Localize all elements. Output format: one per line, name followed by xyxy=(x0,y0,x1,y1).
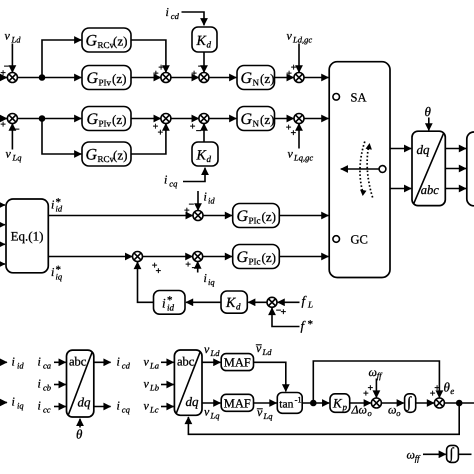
svg-text:ω: ω xyxy=(369,365,377,379)
wire branch up to G_RCv row1 xyxy=(42,40,81,78)
block abc/dq current transform xyxy=(67,350,94,417)
wire MAF1 down into tan-1 xyxy=(254,362,286,391)
svg-text:i: i xyxy=(117,355,120,369)
wire G_PIc row1 into SA/GC block xyxy=(279,215,328,217)
wire vLq,gc up into T4 xyxy=(298,124,300,149)
wire dq/abc to converter block row b xyxy=(445,168,466,170)
svg-text:i: i xyxy=(12,395,15,409)
wire i_id down into C1 xyxy=(197,191,199,210)
svg-text:K: K xyxy=(196,34,207,49)
summer S9 xyxy=(434,398,444,408)
pin circle SA xyxy=(333,94,340,101)
summer S7 xyxy=(267,297,277,307)
wire G_PIc row2 into SA/GC block xyxy=(279,256,328,258)
svg-text:Ld,gc: Ld,gc xyxy=(292,35,312,45)
label f* xyxy=(301,318,314,333)
block integrator 1 xyxy=(405,394,416,413)
label i*_iq (Eq bottom output) xyxy=(51,264,63,282)
svg-text:(z): (z) xyxy=(262,209,276,224)
svg-text:+: + xyxy=(434,383,440,394)
summer T4 row2 xyxy=(294,114,304,124)
wire Eq to summer S5 xyxy=(48,256,132,258)
label vbar_Ld xyxy=(256,341,272,357)
block tan-1 xyxy=(277,393,302,414)
block G_N(z) row2 xyxy=(237,107,275,131)
label v_La xyxy=(144,355,159,371)
svg-text:e: e xyxy=(450,386,454,396)
svg-text:PIv: PIv xyxy=(99,78,112,88)
svg-text:i: i xyxy=(38,399,41,413)
svg-text:−: − xyxy=(192,263,198,274)
svg-text:GC: GC xyxy=(351,233,368,247)
summer T1 row2 xyxy=(7,114,17,124)
svg-text:*: * xyxy=(308,319,314,331)
svg-text:o: o xyxy=(368,408,372,418)
svg-text:v: v xyxy=(144,399,150,413)
svg-text:f: f xyxy=(302,293,308,308)
wire G_N row1 to summer S4 xyxy=(275,77,294,79)
switch wiper line xyxy=(341,168,379,170)
wire Eq input 1 xyxy=(0,204,5,206)
label theta_e xyxy=(444,380,455,397)
summer S4 row1 xyxy=(294,73,304,83)
block abc/dq voltage transform xyxy=(174,350,202,415)
svg-text:Lb: Lb xyxy=(149,383,159,393)
wire K_d row2 up into T3 xyxy=(203,124,205,142)
wire S4 into SA/GC block xyxy=(304,77,329,79)
svg-text:iq: iq xyxy=(208,277,215,287)
svg-text:G: G xyxy=(86,33,98,50)
wire v_Lq into MAF2 xyxy=(202,402,220,404)
wire i*_id block up into S5 xyxy=(138,262,154,302)
block G_PIv(z) row1 xyxy=(82,66,131,90)
svg-text:i: i xyxy=(38,355,41,369)
svg-text:d: d xyxy=(207,40,212,50)
wire G_RCv row2 up into summer T2 xyxy=(131,124,166,154)
svg-text:abc: abc xyxy=(177,355,195,369)
label i_id xyxy=(204,189,216,205)
svg-text:o: o xyxy=(396,408,400,418)
svg-text:ω: ω xyxy=(407,448,415,462)
summer T2 row2 xyxy=(161,114,171,124)
svg-text:−: − xyxy=(198,62,204,73)
svg-text:Ld: Ld xyxy=(262,347,273,357)
wire G_RCv row1 down into summer S2 xyxy=(131,40,166,72)
svg-text:+: + xyxy=(291,63,297,74)
label vLd xyxy=(5,29,22,45)
block G_RCv(z) row2 xyxy=(82,142,131,166)
wire i_cq output xyxy=(94,406,111,408)
svg-text:i: i xyxy=(162,296,166,311)
svg-text:θ: θ xyxy=(76,427,83,442)
wire C1 to G_PIc row1 xyxy=(203,215,232,217)
svg-text:PIc: PIc xyxy=(249,257,261,267)
wire T2 to T3 xyxy=(171,118,199,120)
svg-text:i: i xyxy=(51,265,54,279)
wire summer S7 to K_d xyxy=(248,301,267,303)
svg-text:cd: cd xyxy=(122,361,131,371)
svg-text:v: v xyxy=(256,341,262,355)
summer S8 xyxy=(371,398,381,408)
label v_Lb xyxy=(144,377,159,393)
wire dq/abc to converter block row c xyxy=(445,188,466,190)
svg-text:G: G xyxy=(241,70,253,87)
label f_L xyxy=(302,293,314,310)
wire G_N row2 to summer T4 xyxy=(275,118,294,120)
junction dot row2 xyxy=(40,116,45,121)
svg-text:v: v xyxy=(5,29,11,43)
svg-text:+: + xyxy=(281,307,287,318)
svg-text:tan: tan xyxy=(279,399,293,411)
block K_p xyxy=(330,394,350,413)
wire i_cc into abc/dq current block xyxy=(54,406,66,408)
svg-text:v: v xyxy=(6,147,12,161)
block Eq.(1) xyxy=(6,199,48,273)
node i_id measured input xyxy=(0,361,7,363)
svg-text:θ: θ xyxy=(425,104,432,119)
svg-text:id: id xyxy=(167,303,175,313)
block K_d PLL damping xyxy=(221,291,247,313)
svg-text:G: G xyxy=(237,249,249,266)
svg-text:SA: SA xyxy=(351,90,367,104)
wire Eq input 2 xyxy=(0,224,5,226)
summer S1 xyxy=(7,73,17,83)
svg-text:abc: abc xyxy=(421,183,440,197)
block i*_id feedforward xyxy=(154,291,186,315)
svg-text:Lq: Lq xyxy=(263,411,274,421)
wire dq/abc to converter block row a xyxy=(445,148,466,150)
wire i_cd output xyxy=(94,361,111,363)
wire SA/GC block to dq/abc top output xyxy=(390,148,411,150)
wire K_p to S8 xyxy=(350,402,371,404)
svg-text:+: + xyxy=(156,266,162,277)
block integrator 2 xyxy=(447,445,459,462)
wire S9 to right edge theta_e output xyxy=(444,402,474,404)
label omega_o xyxy=(388,403,401,419)
node i_iq measured input xyxy=(0,402,7,404)
svg-text:cc: cc xyxy=(43,405,51,415)
wire S8 to integrator xyxy=(381,402,404,404)
label omega_ff 2 xyxy=(407,448,422,464)
wire integrator 2 output xyxy=(458,453,471,455)
wire f_L into S7 xyxy=(278,301,300,303)
svg-text:f: f xyxy=(301,318,307,333)
dotted arc left (arrow down) xyxy=(360,142,365,194)
svg-text:p: p xyxy=(342,402,348,412)
wire f* up into S7 xyxy=(272,308,300,327)
block G_PIc(z) row2 xyxy=(233,245,280,269)
svg-text:MAF: MAF xyxy=(224,356,251,370)
block G_N(z) row1 xyxy=(237,66,275,90)
switch pivot circle xyxy=(379,166,386,173)
wire G_PIv row1 to summer S2 xyxy=(131,77,161,79)
wire theta feedback up and over into S9 xyxy=(313,361,439,403)
label vLq,gc xyxy=(288,147,314,163)
svg-text:ω: ω xyxy=(388,403,396,417)
svg-text:RCv: RCv xyxy=(98,154,115,164)
block SA/GC selector xyxy=(329,62,390,278)
svg-text:PIc: PIc xyxy=(249,216,261,226)
label v_Ld xyxy=(204,342,220,358)
wire vLd down into S1 xyxy=(11,44,13,73)
svg-text:N: N xyxy=(253,119,260,129)
label i_cb xyxy=(38,377,52,393)
svg-text:(z): (z) xyxy=(262,250,276,265)
svg-text:iq: iq xyxy=(56,272,63,282)
wire v_La into abc/dq voltage block xyxy=(161,361,174,363)
svg-text:ff: ff xyxy=(415,453,421,463)
svg-text:dq: dq xyxy=(186,394,200,409)
junction dot theta_e xyxy=(457,401,462,406)
label vLq xyxy=(6,147,23,163)
svg-text:Eq.(1): Eq.(1) xyxy=(11,229,44,244)
label delta omega_o xyxy=(351,403,372,419)
svg-text:v: v xyxy=(204,405,210,419)
svg-text:Lc: Lc xyxy=(149,405,159,415)
svg-text:+: + xyxy=(185,260,191,271)
svg-text:i: i xyxy=(166,5,169,19)
wire T4 into SA/GC block xyxy=(304,118,329,120)
block G_PIc(z) row1 xyxy=(233,204,280,228)
svg-text:ca: ca xyxy=(43,361,51,371)
svg-text:N: N xyxy=(253,78,260,88)
svg-text:K: K xyxy=(332,396,343,411)
svg-text:RCv: RCv xyxy=(98,40,115,50)
wire v_Ld into MAF1 xyxy=(202,361,220,363)
svg-text:d: d xyxy=(236,301,241,311)
junction dot row1 xyxy=(40,75,45,80)
block K_d row2 xyxy=(192,142,218,166)
label i_cq output xyxy=(117,399,131,415)
wire theta_e feedback to voltage transform xyxy=(188,403,459,434)
svg-text:+: + xyxy=(153,69,159,80)
junction dot after tan-1 xyxy=(311,401,316,406)
svg-text:−: − xyxy=(196,126,202,137)
svg-text:i: i xyxy=(164,173,167,187)
wire theta into dq/abc xyxy=(428,118,430,131)
wire branch down to G_RCv row2 xyxy=(42,119,81,155)
node vLd* input arrow row1 xyxy=(0,77,7,79)
wire v_Lc into abc/dq voltage block xyxy=(161,406,174,408)
wire i_cq up into K_d row2 xyxy=(183,168,205,182)
wire i_cd to K_d row1 xyxy=(182,12,205,25)
svg-text:K: K xyxy=(225,296,236,311)
svg-text:abc: abc xyxy=(69,355,87,369)
summer C1 xyxy=(193,211,203,221)
wire integrator to S9 xyxy=(416,402,434,404)
label i_cc xyxy=(38,399,51,415)
svg-text:i: i xyxy=(117,399,120,413)
svg-text:dq: dq xyxy=(417,142,431,157)
svg-text:L: L xyxy=(307,300,313,310)
svg-text:G: G xyxy=(86,147,98,164)
wire vLq up into T1 xyxy=(11,124,13,150)
dotted arc right (arrow up) xyxy=(367,146,372,198)
label i_cq xyxy=(164,173,178,189)
wire G_PIv row2 to summer T2 xyxy=(131,118,161,120)
wire S6 to G_PIc row2 xyxy=(202,256,232,258)
svg-text:Lq: Lq xyxy=(12,153,23,163)
wire SA/GC block to dq/abc bottom output xyxy=(390,188,411,190)
svg-text:Ld: Ld xyxy=(11,35,22,45)
svg-text:(z): (z) xyxy=(260,71,274,86)
svg-text:(z): (z) xyxy=(112,112,126,127)
node vLq* input arrow row2 xyxy=(0,118,7,120)
wire i_ca into abc/dq current block xyxy=(54,361,66,363)
svg-text:-1: -1 xyxy=(295,395,302,405)
svg-text:−: − xyxy=(4,62,10,73)
label vLd,gc xyxy=(287,29,313,45)
svg-text:(z): (z) xyxy=(112,71,126,86)
label i_ca xyxy=(38,355,52,371)
svg-text:cd: cd xyxy=(171,11,180,21)
block converter (clipped at right edge) xyxy=(467,132,474,206)
svg-text:i: i xyxy=(12,355,15,369)
svg-text:id: id xyxy=(17,361,24,371)
wire S3 to G_N row1 xyxy=(209,77,237,79)
svg-text:id: id xyxy=(208,195,215,205)
wire Eq input 3 xyxy=(0,243,5,245)
svg-text:cb: cb xyxy=(43,383,51,393)
label vbar_Lq xyxy=(257,405,273,421)
wire i_iq up into S6 xyxy=(197,262,199,273)
wire i_cb into abc/dq current block xyxy=(54,384,66,386)
block G_PIv(z) row2 xyxy=(82,107,131,131)
pin circle GC xyxy=(333,236,340,243)
svg-text:d: d xyxy=(207,154,212,164)
label i*_id (Eq top output) xyxy=(51,197,63,214)
svg-text:i: i xyxy=(204,189,207,203)
summer S2 row1 xyxy=(161,73,171,83)
svg-text:v: v xyxy=(288,147,294,161)
wire K_d row1 down into S3 xyxy=(203,52,205,72)
svg-text:i: i xyxy=(38,377,41,391)
svg-text:K: K xyxy=(196,149,207,164)
svg-text:cq: cq xyxy=(122,405,131,415)
svg-text:+: + xyxy=(184,206,190,217)
label i_cd output xyxy=(117,355,131,371)
svg-text:(z): (z) xyxy=(260,112,274,127)
svg-text:+: + xyxy=(0,120,6,131)
svg-text:i: i xyxy=(51,198,54,212)
svg-text:+: + xyxy=(158,63,164,74)
svg-text:ff: ff xyxy=(377,371,383,381)
svg-text:La: La xyxy=(149,361,159,371)
svg-text:PIv: PIv xyxy=(99,119,112,129)
summer T3 row2 xyxy=(199,114,209,124)
svg-text:Lq,gc: Lq,gc xyxy=(293,153,313,163)
block MAF2 xyxy=(221,394,253,411)
label i_iq xyxy=(204,271,216,287)
svg-text:G: G xyxy=(241,111,253,128)
wire K_d to i*_id block xyxy=(186,301,221,303)
svg-text:iq: iq xyxy=(17,401,24,411)
wire vLd,gc down into S4 xyxy=(298,44,300,73)
summer S6 xyxy=(193,252,203,262)
summer S3 row1 xyxy=(199,73,209,83)
svg-text:v: v xyxy=(144,355,150,369)
label v_Lc xyxy=(144,399,159,415)
svg-text:G: G xyxy=(87,70,99,87)
wire S5 to S6 xyxy=(142,256,192,258)
label i_cd xyxy=(166,5,180,21)
wire tan-1 to K_p xyxy=(302,402,329,404)
svg-text:(z): (z) xyxy=(113,148,127,163)
wire Eq input 4 xyxy=(0,263,5,265)
block dq/abc transform (output) xyxy=(412,131,445,205)
block G_RCv(z) row1 xyxy=(82,28,131,52)
svg-text:+: + xyxy=(291,128,297,139)
wire T3 to G_N row2 xyxy=(209,118,237,120)
svg-text:∫: ∫ xyxy=(448,446,454,463)
svg-text:i: i xyxy=(204,271,207,285)
summer S5 xyxy=(133,252,143,262)
wire S2 to S3 xyxy=(171,77,199,79)
wire omega_ff into integrator 2 xyxy=(423,453,446,455)
svg-text:Ld: Ld xyxy=(210,348,221,358)
svg-text:v: v xyxy=(257,405,263,419)
wire S1 to G_PIv row1 xyxy=(17,77,81,79)
label omega_ff xyxy=(369,365,384,381)
svg-text:cq: cq xyxy=(169,179,178,189)
svg-text:G: G xyxy=(237,208,249,225)
svg-text:MAF: MAF xyxy=(224,396,251,410)
wire Eq to summer C1 xyxy=(48,215,192,217)
block MAF1 xyxy=(221,354,253,371)
svg-text:∫: ∫ xyxy=(406,395,412,412)
wire T1 to G_PIv row2 xyxy=(17,118,81,120)
svg-text:−: − xyxy=(14,125,20,136)
svg-text:G: G xyxy=(87,111,99,128)
svg-text:v: v xyxy=(287,29,293,43)
svg-text:dq: dq xyxy=(78,395,92,410)
svg-text:+: + xyxy=(158,128,164,139)
wire MAF2 into tan-1 xyxy=(254,402,277,404)
label v_Lq xyxy=(204,405,220,421)
svg-text:v: v xyxy=(204,342,210,356)
svg-text:Δω: Δω xyxy=(351,403,368,417)
wire v_Lb into abc/dq voltage block xyxy=(161,384,174,386)
wire theta up into current transform xyxy=(79,419,81,428)
svg-text:v: v xyxy=(144,377,150,391)
svg-text:Lq: Lq xyxy=(210,411,221,421)
svg-text:id: id xyxy=(56,204,63,214)
block K_d row1 xyxy=(192,27,217,52)
svg-text:(z): (z) xyxy=(113,34,127,49)
svg-text:+: + xyxy=(191,69,197,80)
svg-text:+: + xyxy=(368,383,374,394)
wire omega_ff down into S8 xyxy=(375,379,377,398)
